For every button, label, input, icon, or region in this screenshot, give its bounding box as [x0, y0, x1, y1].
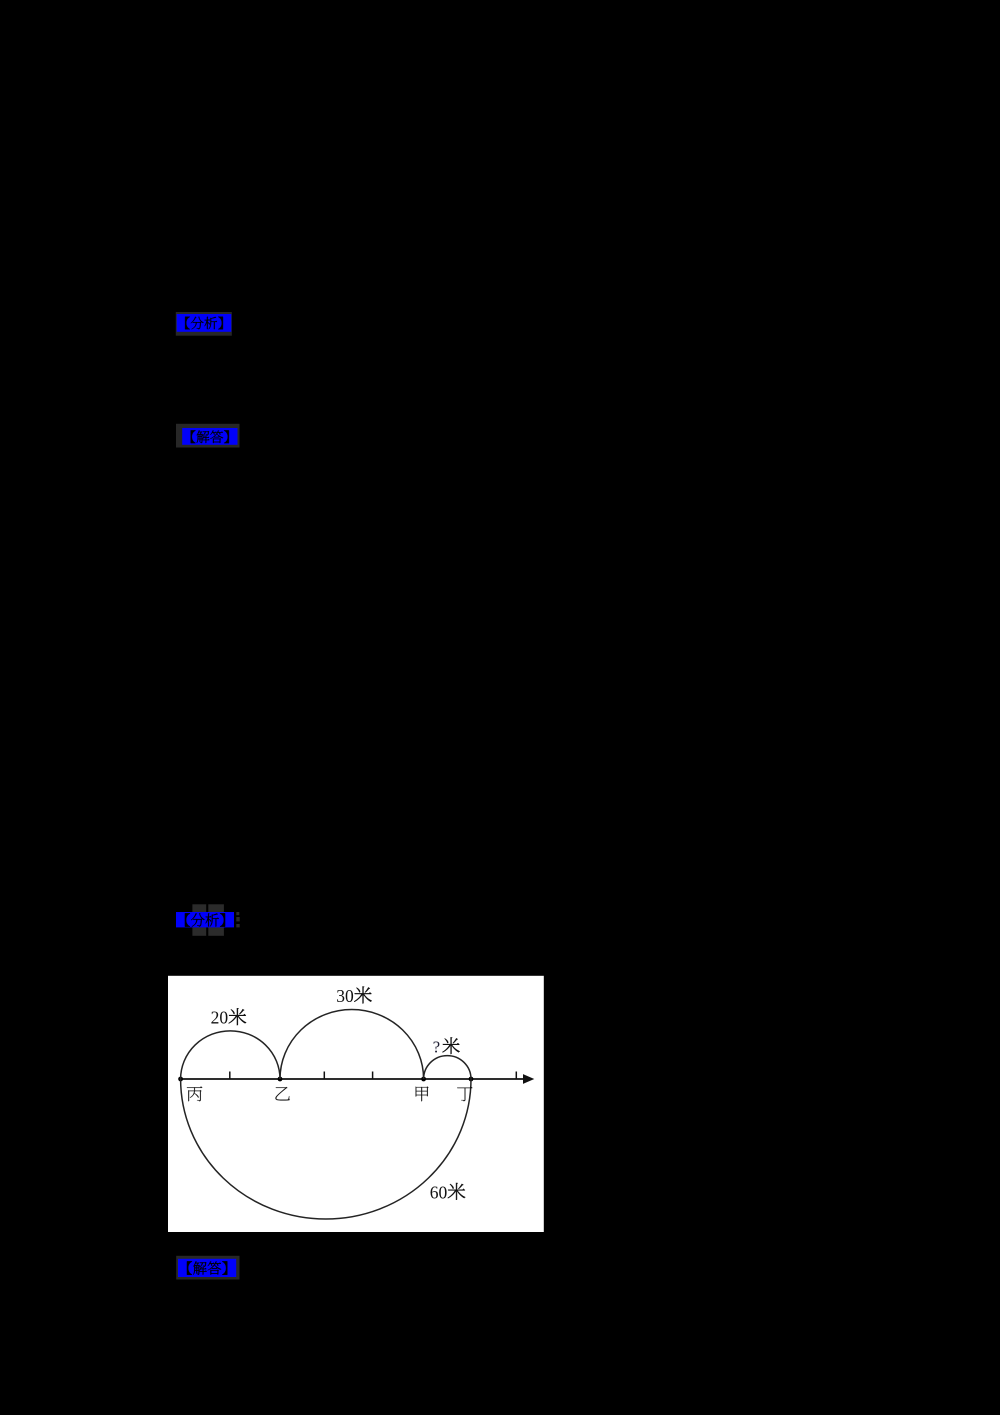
arc 丙-丁 lower (60米) — [181, 1079, 471, 1219]
svg-text:60: 60 — [430, 1182, 448, 1202]
axis arrowhead — [523, 1074, 534, 1084]
svg-text:30: 30 — [336, 986, 354, 1006]
blue highlight marker 3 — [176, 912, 234, 927]
axis tick 1 — [229, 1072, 231, 1080]
text 【解答】 marker 4 — [187, 1261, 227, 1274]
svg-text:20: 20 — [211, 1008, 229, 1028]
diagram panel (white) — [168, 976, 544, 1232]
label 丙 — [187, 1086, 202, 1101]
label 乙 — [275, 1087, 289, 1100]
point dot 乙 — [278, 1077, 283, 1082]
line shading behind marker 4 — [176, 1256, 239, 1280]
point dot 丁 — [469, 1077, 474, 1082]
axis tick 4 — [515, 1072, 517, 1080]
blue highlight marker 1 — [177, 314, 232, 332]
label 20米 — [211, 1008, 246, 1028]
blue highlight marker 4 — [178, 1259, 236, 1277]
label 丁 — [457, 1087, 472, 1102]
line shading behind marker 1 — [176, 312, 232, 336]
text 【分析】 marker 3 — [185, 913, 225, 926]
label ?米 — [433, 1037, 460, 1056]
arc 丙-乙 (20米) — [181, 1031, 280, 1079]
point dot 甲 — [421, 1077, 426, 1082]
line shading behind marker 2 — [176, 424, 240, 448]
svg-text:?: ? — [433, 1038, 440, 1057]
text 【解答】 marker 2 — [191, 430, 229, 443]
text 【分析】 marker 1 — [185, 317, 223, 330]
label 30米 — [336, 986, 371, 1006]
arc 甲-丁 (?米) — [424, 1056, 471, 1079]
stray glyph fragment right of marker 3 — [236, 912, 239, 927]
arc 乙-甲 (30米) — [280, 1010, 424, 1079]
number line axis — [181, 1078, 525, 1080]
axis tick 2 — [323, 1072, 325, 1080]
label 60米 — [430, 1182, 465, 1202]
label 甲 — [416, 1086, 429, 1101]
blue highlight marker 2 — [182, 428, 237, 445]
character shading 析 marker 3 — [208, 904, 224, 936]
axis tick 3 — [372, 1072, 374, 1080]
character shading 分 marker 3 — [192, 904, 206, 936]
point dot 丙 — [178, 1077, 183, 1082]
